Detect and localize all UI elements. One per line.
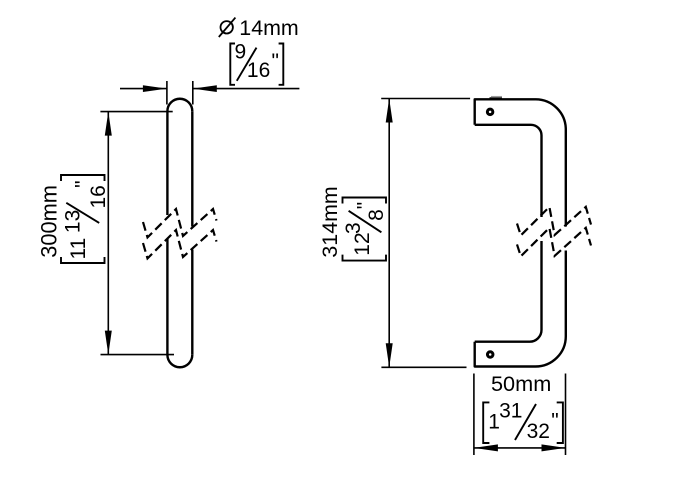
top leg inner edge with small corner radius bbox=[475, 125, 542, 217]
bracketed fraction [1 31/32"] bbox=[483, 399, 563, 443]
bottom leg inner edge with small corner radius bbox=[475, 241, 542, 342]
svg-text:13: 13 bbox=[61, 210, 84, 233]
bar right edge lower segment bbox=[191, 250, 193, 355]
314mm dimension arrowhead up bbox=[386, 99, 393, 123]
diameter dimension arrowhead left bbox=[143, 85, 167, 92]
svg-text:314mm: 314mm bbox=[318, 186, 342, 257]
diameter dimension arrowhead right bbox=[193, 85, 217, 92]
right view: D-handle front outline bbox=[475, 99, 566, 366]
bracketed fraction [11 13/16"] (rotated) bbox=[61, 175, 110, 263]
svg-text:3: 3 bbox=[342, 222, 365, 234]
diameter symbol bbox=[219, 18, 236, 37]
svg-text:16: 16 bbox=[247, 59, 270, 82]
svg-text:": " bbox=[353, 202, 376, 209]
svg-text:8: 8 bbox=[365, 209, 388, 221]
svg-text:": " bbox=[551, 410, 558, 433]
top leg outer edge with corner radius into grip bar bbox=[475, 99, 566, 226]
bar left edge lower segment bbox=[166, 239, 168, 355]
50mm dimension extension lines bbox=[474, 374, 566, 456]
300mm dimension arrowhead down bbox=[105, 331, 112, 355]
break symbol on left-view bar (dashed zigzag pair) bbox=[143, 209, 217, 258]
svg-text:": " bbox=[72, 180, 95, 187]
screw hole, bottom leg bbox=[487, 352, 493, 358]
bar bottom rounded cap bbox=[167, 355, 192, 367]
300mm dimension arrowhead up bbox=[105, 112, 112, 136]
bar right edge upper segment bbox=[191, 111, 193, 226]
countersink mark on top leg face bbox=[490, 96, 503, 98]
314mm dimension arrowhead down bbox=[386, 343, 393, 367]
bottom leg outer edge with corner radius into grip bar bbox=[475, 251, 566, 367]
screw hole, top leg bbox=[487, 109, 493, 115]
314mm dimension extension lines bbox=[381, 99, 470, 368]
bracketed fraction [12 3/8"] (rotated) bbox=[342, 198, 388, 261]
svg-text:12: 12 bbox=[351, 232, 374, 255]
svg-text:50mm: 50mm bbox=[491, 371, 551, 396]
svg-text:14mm: 14mm bbox=[239, 16, 298, 40]
left view: handle bar side profile (rounded-end bar) bbox=[167, 99, 192, 368]
svg-text:11: 11 bbox=[67, 238, 90, 260]
50mm dimension line bbox=[474, 447, 566, 449]
svg-text:31: 31 bbox=[499, 399, 522, 422]
diameter dimension extension lines bbox=[167, 81, 193, 105]
50mm dimension arrowhead right bbox=[542, 444, 566, 451]
svg-text:32: 32 bbox=[527, 420, 550, 443]
300mm dimension line bbox=[107, 112, 109, 355]
break symbol on right-view grip bar (dashed zigzag pair) bbox=[517, 207, 591, 256]
bar left edge upper segment bbox=[166, 111, 168, 215]
50mm dimension arrowhead left bbox=[474, 444, 498, 451]
svg-text:": " bbox=[272, 50, 279, 73]
300mm dimension extension lines bbox=[100, 112, 174, 355]
bracketed fraction [9/16"] bbox=[230, 40, 283, 84]
bar top rounded cap bbox=[167, 99, 192, 111]
svg-text:9: 9 bbox=[235, 40, 247, 63]
314mm dimension line bbox=[388, 99, 390, 368]
diameter dimension line (left tail and right tail) bbox=[120, 88, 299, 90]
svg-text:300mm: 300mm bbox=[37, 185, 62, 258]
